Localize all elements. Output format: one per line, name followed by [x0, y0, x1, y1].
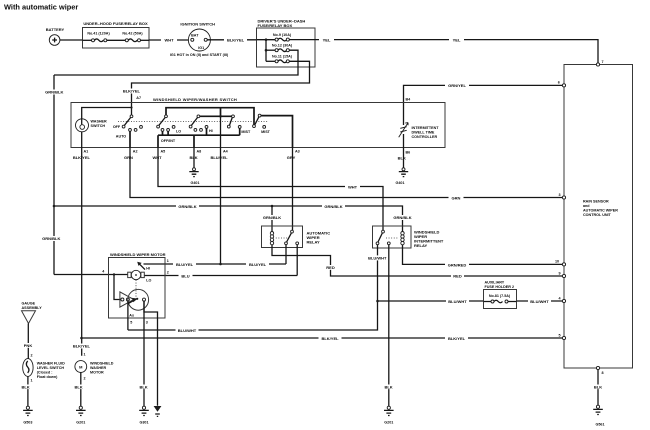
svg-text:G401: G401	[395, 181, 404, 185]
svg-text:1: 1	[31, 379, 33, 383]
wire GRN/RED relay2 coil to rain sensor pin 10	[403, 245, 565, 267]
svg-text:UNDER–HOOD FUSE/RELAY BOX: UNDER–HOOD FUSE/RELAY BOX	[83, 21, 148, 26]
svg-text:BLU: BLU	[181, 273, 189, 278]
wire BLK/YEL ignition to driver's box	[207, 37, 256, 42]
svg-text:BLK: BLK	[139, 385, 147, 390]
switch 1 OFF/AUTO	[113, 115, 143, 138]
wire BLK/YEL bottom run to rain sensor pin 5	[82, 336, 565, 341]
wire GRN A2 to rain sensor pin 3	[130, 148, 564, 201]
auxiliary fuse holder 2	[484, 281, 517, 309]
wire left rail to motor pin 4	[54, 274, 128, 276]
svg-text:BLK: BLK	[398, 155, 406, 160]
wire from fuse No.11 to A7	[132, 61, 310, 116]
svg-text:WINDSHIELD: WINDSHIELD	[90, 362, 114, 366]
wire YEL from fuse No.9 to rain sensor pin 7	[315, 37, 598, 64]
svg-text:PNK: PNK	[24, 343, 33, 348]
svg-text:A8: A8	[197, 149, 202, 153]
svg-text:G561: G561	[595, 423, 604, 427]
svg-text:CONTROL UNIT: CONTROL UNIT	[583, 213, 612, 217]
wire relay1 contact to BLU run	[296, 245, 298, 276]
svg-text:WINDSHIELD WIPER/WASHER SWITCH: WINDSHIELD WIPER/WASHER SWITCH	[153, 97, 237, 102]
pin 6	[558, 81, 566, 87]
svg-text:OFF/INT: OFF/INT	[161, 139, 176, 143]
svg-text:BLU/WHT: BLU/WHT	[368, 256, 387, 261]
svg-text:BATTERY: BATTERY	[46, 27, 65, 32]
ground G401 left	[189, 168, 199, 185]
svg-text:IG1: IG1	[198, 46, 204, 50]
battery	[46, 27, 65, 45]
svg-text:RELAY: RELAY	[414, 243, 428, 248]
BLK/YEL label washer motor feed	[70, 344, 93, 349]
wire PNK gauge to level switch	[22, 324, 36, 359]
svg-text:GRN: GRN	[452, 195, 461, 200]
level switch pin 1 and BLK wire	[20, 376, 33, 406]
washer motor pin 2 and BLK wire	[73, 372, 86, 406]
svg-text:A7: A7	[136, 96, 141, 100]
svg-text:No.11 (15A): No.11 (15A)	[272, 55, 293, 59]
ground G201 center	[384, 406, 394, 424]
svg-text:A2: A2	[133, 149, 138, 153]
windshield wiper/washer switch box	[71, 97, 445, 148]
switch contact bus	[158, 134, 240, 136]
svg-text:BLU/YEL: BLU/YEL	[176, 262, 194, 267]
svg-text:FUSE HOLDER 2: FUSE HOLDER 2	[485, 285, 515, 289]
svg-text:BLK/YEL: BLK/YEL	[227, 38, 245, 43]
label BLK/YEL and A7 above switch box	[120, 89, 143, 101]
pin A8 label	[188, 149, 201, 160]
wire park contact to grounds	[144, 301, 158, 406]
wire from fuse No.12 down-left to left rail	[54, 50, 298, 75]
driver's box feed wire	[257, 38, 276, 61]
svg-text:BLK: BLK	[594, 385, 602, 390]
wire GRN/BLK drop to relay1 coil	[261, 206, 284, 231]
svg-text:A5: A5	[161, 149, 166, 153]
wire MIST contact stub	[239, 128, 241, 135]
svg-text:7: 7	[602, 60, 604, 64]
svg-text:ASSEMBLY: ASSEMBLY	[22, 306, 43, 310]
wire park contact pin 3 to ground	[143, 301, 145, 406]
svg-text:LO: LO	[146, 279, 151, 283]
svg-text:YEL: YEL	[323, 37, 331, 42]
wiper motor armature M1	[128, 262, 152, 283]
wire switch5 pivot to A3	[261, 116, 293, 148]
fuse No.42 (50A)	[107, 31, 149, 42]
svg-text:MOTOR: MOTOR	[90, 371, 104, 375]
svg-text:MIST: MIST	[241, 130, 251, 134]
ground filled	[154, 406, 162, 416]
wire GRN/BLK horizontal run to relay coils	[54, 204, 403, 232]
svg-text:BLU/WHT: BLU/WHT	[448, 299, 467, 304]
switch 5 MIST	[253, 114, 271, 134]
wire BLU motor pin2 to relay1	[144, 273, 297, 278]
wire A8 to ground	[193, 148, 195, 168]
svg-text:WHT: WHT	[164, 38, 174, 43]
svg-text:GRN/BLK: GRN/BLK	[263, 215, 281, 220]
svg-text:No.12 (30A): No.12 (30A)	[272, 43, 293, 47]
wire BLU/WHT branch to aux fuse holder	[378, 299, 484, 304]
svg-text:GRY: GRY	[287, 155, 296, 160]
left rail GRN/BLK	[40, 75, 66, 275]
pin A4 label	[208, 149, 231, 160]
svg-text:As: As	[129, 314, 134, 318]
junction A1/BLK/YEL run	[80, 337, 83, 340]
pin 3	[559, 193, 566, 199]
svg-text:10: 10	[555, 260, 559, 264]
fuse No.12 (30A)	[266, 43, 293, 51]
svg-text:No.41 (120A): No.41 (120A)	[87, 31, 110, 35]
under-hood fuse/relay box	[83, 21, 150, 48]
svg-text:YEL: YEL	[453, 37, 461, 42]
svg-text:No.9 (10A): No.9 (10A)	[273, 33, 292, 37]
svg-text:Float down): Float down)	[37, 375, 58, 379]
svg-text:A3: A3	[295, 149, 300, 153]
pin 8 and BLK ground wire	[592, 366, 604, 405]
windshield wiper motor box	[109, 252, 166, 318]
svg-text:5: 5	[559, 333, 561, 337]
rain sensor and automatic wiper control unit	[564, 65, 633, 369]
svg-text:G503: G503	[23, 421, 32, 425]
svg-text:RAIN SENSOR: RAIN SENSOR	[583, 200, 609, 204]
svg-text:BLK/YEL: BLK/YEL	[448, 336, 466, 341]
svg-text:1: 1	[167, 259, 169, 263]
svg-text:INTERMITTENT: INTERMITTENT	[412, 126, 440, 130]
ground G401 right	[395, 168, 408, 185]
fuse No.11 (15A)	[266, 55, 293, 63]
park plate circle	[128, 280, 149, 310]
svg-text:G201: G201	[76, 421, 85, 425]
wire AUTO contact to A2	[129, 131, 131, 147]
wire A1 down to washer motor	[81, 132, 83, 356]
pin A2 label	[121, 149, 138, 160]
svg-text:HI: HI	[209, 129, 213, 133]
svg-text:(Closed :: (Closed :	[37, 371, 53, 375]
svg-text:GRN/BLK: GRN/BLK	[45, 90, 63, 95]
svg-text:WHT: WHT	[152, 155, 162, 160]
svg-text:RED: RED	[326, 265, 335, 270]
wire A4 down to BLU/YEL run	[220, 116, 222, 264]
wire relay1 contact to BLU/YEL run	[285, 245, 287, 264]
svg-text:G401: G401	[190, 181, 199, 185]
svg-text:WASHER: WASHER	[91, 119, 108, 123]
ground G301	[139, 406, 149, 424]
pin 10	[555, 260, 566, 266]
svg-text:3: 3	[559, 193, 561, 197]
svg-text:LEVEL SWITCH: LEVEL SWITCH	[37, 366, 65, 370]
svg-text:B6: B6	[406, 151, 411, 155]
svg-text:FUSE/RELAY BOX: FUSE/RELAY BOX	[258, 23, 293, 28]
svg-text:2: 2	[167, 271, 169, 275]
svg-text:LO: LO	[176, 129, 181, 133]
driver's under-dash fuse/relay box	[257, 19, 316, 68]
svg-text:OFF: OFF	[113, 125, 121, 129]
washer switch	[76, 119, 108, 132]
junction bus A4	[219, 115, 222, 118]
wire GRY A3 to automatic wiper relay	[292, 148, 294, 232]
ground G503	[23, 406, 33, 424]
svg-text:WASHER: WASHER	[90, 366, 107, 370]
svg-text:GAUGE: GAUGE	[22, 302, 36, 306]
svg-text:GRN/BLK: GRN/BLK	[393, 215, 411, 220]
svg-text:G201: G201	[384, 421, 393, 425]
ground G561	[593, 405, 604, 427]
svg-text:WHT: WHT	[348, 184, 358, 189]
ground G201 washer motor	[76, 406, 86, 424]
pin 9	[559, 271, 566, 277]
wire WHT A5 to intermittent relay	[158, 148, 383, 232]
svg-text:DWELL TIME: DWELL TIME	[412, 130, 435, 134]
wire motor pin 5	[127, 301, 129, 330]
automatic wiper relay U1	[262, 226, 331, 248]
svg-text:No.42 (50A): No.42 (50A)	[122, 31, 143, 35]
wire OFF/INT contact to A5	[158, 131, 163, 148]
svg-text:BLK/YEL: BLK/YEL	[73, 344, 91, 349]
svg-text:With automatic wiper: With automatic wiper	[4, 3, 78, 12]
fuse No.9 (10A)	[273, 33, 315, 41]
svg-text:GRN: GRN	[124, 155, 133, 160]
svg-text:IGNITION SWITCH: IGNITION SWITCH	[180, 21, 215, 26]
svg-text:BLU/WHT: BLU/WHT	[178, 328, 197, 333]
svg-text:AUTOMATIC WIPER: AUTOMATIC WIPER	[583, 209, 618, 213]
svg-text:SWITCH: SWITCH	[91, 124, 106, 128]
svg-text:BLU/YEL: BLU/YEL	[210, 155, 228, 160]
wire HI contact stub	[206, 128, 208, 135]
svg-text:5: 5	[130, 321, 132, 325]
junction A7/washer feed	[130, 106, 132, 108]
windshield washer motor M2	[75, 361, 114, 375]
svg-text:3: 3	[146, 321, 148, 325]
junction motor pin 4	[113, 273, 115, 275]
gauge assembly	[22, 302, 43, 324]
svg-text:HI: HI	[146, 267, 150, 271]
pin B6 and BLK to ground	[397, 148, 411, 168]
svg-text:RED: RED	[453, 274, 462, 279]
switch 4 MIST	[227, 115, 251, 134]
label GRN/BLK drop to relay2 coil	[391, 215, 414, 220]
intermittent dwell time controller	[399, 103, 440, 148]
svg-text:CONTROLLER: CONTROLLER	[412, 135, 438, 139]
BLK label relay2 ground wire	[383, 385, 395, 390]
pin A3 label	[284, 149, 300, 160]
svg-text:GRN/BLK: GRN/BLK	[324, 204, 342, 209]
junction relay1 coil drop	[271, 205, 274, 208]
pin 4	[559, 296, 566, 302]
svg-text:AUXILIARY: AUXILIARY	[485, 281, 505, 285]
svg-text:and: and	[583, 204, 590, 208]
wire BLU/WHT relay2 contact down to motor pin 5	[128, 245, 389, 333]
BLK label motor ground	[138, 385, 150, 390]
junction A4 on BLU/YEL run	[219, 263, 222, 266]
svg-text:GRN/YEL: GRN/YEL	[448, 83, 466, 88]
wire relay2 contact2 to ground	[388, 245, 390, 407]
junction BLU/WHT branch to aux fuse	[376, 300, 379, 303]
wire washer switch feed	[82, 108, 132, 119]
svg-text:9: 9	[559, 271, 561, 275]
svg-text:AUTO: AUTO	[116, 134, 127, 138]
svg-text:WASHER FLUID: WASHER FLUID	[37, 362, 65, 366]
svg-text:BLU/YEL: BLU/YEL	[249, 262, 267, 267]
svg-text:GRN/BLK: GRN/BLK	[178, 204, 196, 209]
svg-text:GRN/BLK: GRN/BLK	[42, 236, 60, 241]
pin A5 label	[150, 149, 166, 160]
fuse No.41 (120A)	[83, 31, 111, 42]
pin 5	[559, 333, 566, 339]
ignition switch	[170, 21, 229, 57]
svg-text:BLK: BLK	[21, 385, 29, 390]
svg-text:BAT: BAT	[191, 33, 199, 37]
pin 7	[596, 60, 603, 66]
wire GRN/YEL from B4 to rain sensor pin 6	[404, 83, 565, 103]
svg-text:BLK/YEL: BLK/YEL	[321, 336, 339, 341]
wire motor pin4 to park wedge	[114, 275, 121, 300]
wire BLU/WHT aux fuse to rain sensor pin 4	[517, 299, 565, 304]
svg-text:6: 6	[558, 81, 560, 85]
switch 3 LO/HI	[176, 115, 213, 133]
svg-text:WINDSHIELD WIPER MOTOR: WINDSHIELD WIPER MOTOR	[110, 252, 166, 257]
svg-text:1: 1	[84, 352, 86, 356]
bus A top inside switch	[166, 108, 254, 125]
bus B pivot3 to pivot4	[198, 108, 233, 117]
svg-text:No.81 (7.5A): No.81 (7.5A)	[489, 294, 511, 298]
svg-text:MIST: MIST	[261, 130, 271, 134]
svg-text:GRN/RED: GRN/RED	[448, 262, 467, 267]
svg-text:BLU/WHT: BLU/WHT	[530, 299, 549, 304]
junction left rail	[53, 205, 56, 208]
svg-text:2: 2	[31, 354, 33, 358]
svg-text:2: 2	[84, 377, 86, 381]
park switch wedge	[120, 292, 134, 307]
svg-text:IG1 HOT in ON (II) and START (: IG1 HOT in ON (II) and START (III)	[170, 53, 229, 57]
svg-text:RELAY: RELAY	[307, 240, 321, 245]
windshield wiper intermittent relay U2	[373, 226, 444, 248]
switch 2 OFF/INT	[157, 115, 176, 143]
svg-text:G301: G301	[139, 421, 148, 425]
svg-text:A1: A1	[84, 149, 89, 153]
pin A1 label	[70, 149, 93, 160]
wire WHT to ignition switch	[149, 38, 188, 43]
svg-text:BLK: BLK	[74, 385, 82, 390]
wire BLU/YEL motor pin1 to relay1	[144, 262, 287, 267]
wire INT contact to A8 bus	[168, 131, 194, 148]
wire RED relay1 coil to rain sensor pin 9	[272, 245, 564, 279]
washer fluid level switch S1	[23, 359, 65, 380]
svg-text:BLK: BLK	[384, 385, 392, 390]
wire battery to under-hood box	[60, 39, 83, 41]
svg-text:BLK/YEL: BLK/YEL	[123, 89, 141, 94]
svg-text:8: 8	[602, 371, 604, 375]
dotted switch gang line	[118, 120, 268, 122]
